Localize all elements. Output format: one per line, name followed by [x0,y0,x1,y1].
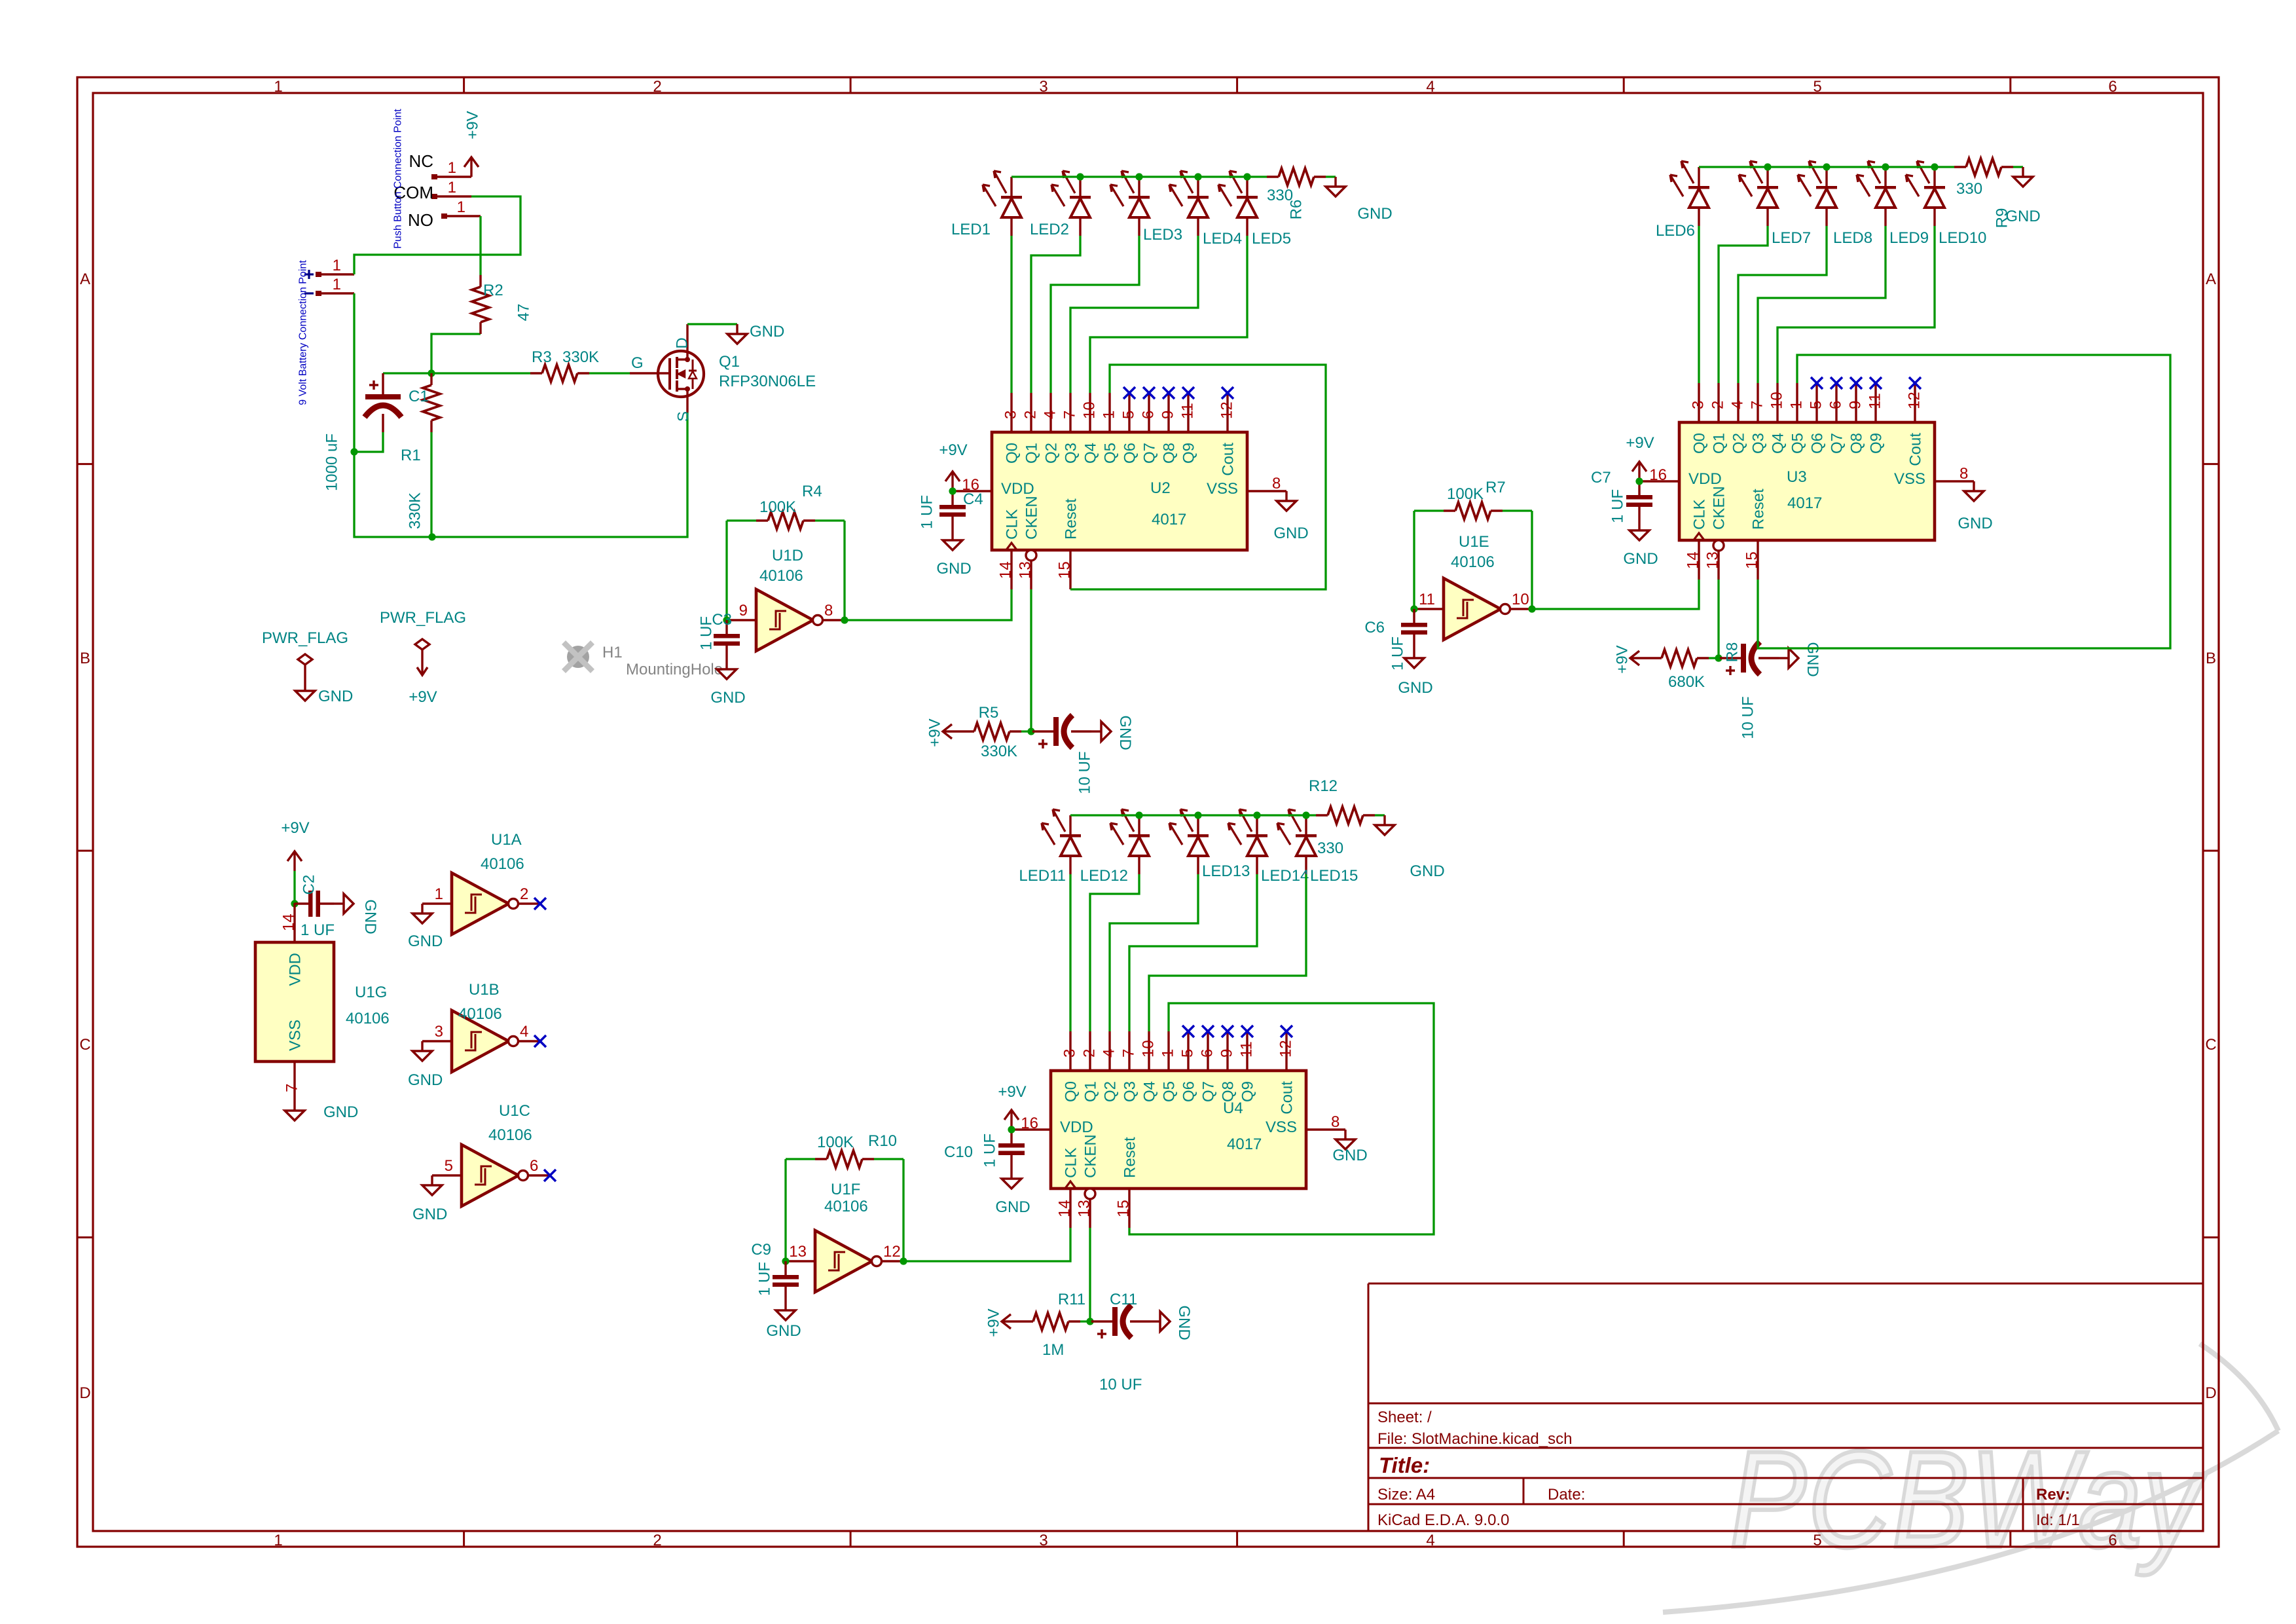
svg-text:GND: GND [412,1206,447,1223]
svg-text:C9: C9 [751,1241,771,1259]
svg-text:Q7: Q7 [1141,443,1159,464]
svg-text:Q4: Q4 [1141,1081,1159,1102]
svg-text:VSS: VSS [1266,1118,1297,1136]
svg-text:5: 5 [1179,1049,1197,1058]
svg-text:680K: 680K [1668,673,1705,691]
svg-text:Q6: Q6 [1121,443,1139,464]
svg-text:7: 7 [1061,411,1079,419]
svg-text:VDD: VDD [287,953,304,986]
svg-text:1: 1 [333,257,341,274]
svg-text:File: SlotMachine.kicad_sch: File: SlotMachine.kicad_sch [1377,1430,1572,1448]
svg-text:Cout: Cout [1279,1081,1296,1115]
svg-text:C7: C7 [1591,469,1611,487]
svg-text:VSS: VSS [287,1020,304,1051]
svg-text:VSS: VSS [1894,470,1925,488]
svg-text:GND: GND [1357,205,1392,223]
svg-text:15: 15 [1056,561,1074,579]
svg-text:3: 3 [1061,1049,1079,1058]
svg-text:CLK: CLK [1691,499,1709,530]
svg-text:1: 1 [1788,401,1806,409]
svg-text:4: 4 [1426,78,1434,96]
svg-text:4: 4 [1042,411,1059,419]
svg-text:C1: C1 [409,388,429,405]
svg-text:U1A: U1A [491,831,522,849]
svg-text:100K: 100K [759,498,796,516]
svg-text:D: D [674,337,691,348]
svg-text:12: 12 [883,1243,901,1261]
svg-text:PWR_FLAG: PWR_FLAG [262,629,348,647]
svg-text:U1E: U1E [1459,533,1489,551]
svg-text:C: C [2205,1036,2216,1054]
svg-text:1: 1 [457,198,465,216]
svg-text:1 UF: 1 UF [1609,489,1627,523]
svg-text:4: 4 [1426,1532,1434,1549]
svg-text:6: 6 [1140,411,1157,419]
svg-text:C10: C10 [944,1143,973,1161]
svg-text:7: 7 [1749,401,1766,409]
svg-text:Rev:: Rev: [2036,1486,2070,1504]
svg-text:PCBWay: PCBWay [1730,1423,2207,1576]
svg-text:Reset: Reset [1121,1137,1139,1178]
svg-text:LED3: LED3 [1143,226,1182,244]
svg-text:GND: GND [1804,642,1821,676]
svg-text:Q1: Q1 [1023,443,1041,464]
svg-text:A: A [2206,270,2216,288]
svg-text:9: 9 [1218,1049,1236,1058]
svg-text:40106: 40106 [481,855,524,873]
svg-text:LED5: LED5 [1252,230,1291,248]
svg-text:Push Button Connection Point: Push Button Connection Point [393,109,404,249]
svg-text:47: 47 [515,304,533,322]
svg-text:13: 13 [789,1243,807,1261]
svg-text:7: 7 [1120,1049,1138,1058]
svg-text:1: 1 [1101,411,1118,419]
svg-text:Q8: Q8 [1161,443,1178,464]
svg-text:Q9: Q9 [1180,443,1198,464]
svg-text:4017: 4017 [1152,511,1186,528]
svg-text:1 UF: 1 UF [919,495,936,529]
svg-text:VDD: VDD [1060,1118,1093,1136]
svg-text:11: 11 [1179,403,1197,419]
svg-text:Q0: Q0 [1691,433,1709,454]
svg-text:5: 5 [445,1157,453,1175]
svg-text:3: 3 [1039,78,1048,96]
svg-text:1 UF: 1 UF [301,921,335,939]
svg-text:40106: 40106 [488,1126,532,1144]
svg-text:10: 10 [1140,1040,1157,1058]
svg-text:14: 14 [1056,1200,1074,1217]
svg-text:6: 6 [1827,401,1845,409]
svg-text:GND: GND [318,688,353,705]
svg-text:8: 8 [824,602,833,619]
svg-text:4017: 4017 [1787,494,1822,512]
svg-text:330: 330 [1317,840,1343,857]
svg-text:MountingHole: MountingHole [626,661,723,678]
svg-text:LED15: LED15 [1310,867,1358,885]
svg-text:R10: R10 [868,1132,897,1150]
svg-text:16: 16 [1021,1115,1038,1132]
svg-text:CKEN: CKEN [1082,1134,1100,1178]
svg-text:RFP30N06LE: RFP30N06LE [719,373,816,390]
svg-text:10 UF: 10 UF [1740,696,1757,739]
svg-text:330K: 330K [562,348,599,366]
svg-text:VDD: VDD [1001,480,1034,498]
svg-text:16: 16 [1649,466,1667,484]
svg-text:Cout: Cout [1907,433,1925,466]
svg-text:11: 11 [1419,591,1435,608]
svg-text:100K: 100K [1447,485,1484,503]
svg-text:U1F: U1F [831,1181,860,1198]
svg-text:LED6: LED6 [1656,222,1695,240]
svg-text:Q6: Q6 [1180,1081,1198,1102]
svg-text:Size: A4: Size: A4 [1377,1486,1435,1504]
svg-text:R11: R11 [1058,1291,1085,1308]
svg-text:CLK: CLK [1004,509,1021,540]
svg-text:6: 6 [530,1157,538,1175]
svg-text:2: 2 [1081,1049,1099,1058]
svg-text:5: 5 [1813,1532,1821,1549]
svg-text:+9V: +9V [939,441,967,459]
svg-text:R2: R2 [483,282,503,299]
svg-text:Q8: Q8 [1848,433,1866,454]
svg-text:LED7: LED7 [1772,229,1811,247]
svg-text:5: 5 [1813,78,1821,96]
svg-text:R7: R7 [1485,479,1506,496]
svg-text:A: A [80,270,90,288]
svg-text:15: 15 [1115,1200,1133,1217]
svg-text:Q0: Q0 [1063,1081,1080,1102]
svg-text:+9V: +9V [1614,645,1631,673]
svg-text:Cout: Cout [1220,443,1237,476]
svg-text:1M: 1M [1042,1341,1064,1359]
svg-text:5: 5 [1120,411,1138,419]
svg-text:LED10: LED10 [1939,229,1986,247]
svg-text:+9V: +9V [1626,434,1654,452]
svg-text:Q3: Q3 [1063,443,1080,464]
svg-text:+9V: +9V [998,1083,1026,1101]
svg-text:40106: 40106 [759,567,803,585]
svg-text:LED11: LED11 [1019,867,1066,885]
svg-text:VDD: VDD [1688,470,1722,488]
svg-text:LED9: LED9 [1889,229,1929,247]
svg-text:1: 1 [274,78,282,96]
svg-text:Q4: Q4 [1082,443,1100,464]
svg-text:4: 4 [1729,401,1747,409]
svg-text:U4: U4 [1223,1099,1243,1117]
svg-text:Q2: Q2 [1043,443,1061,464]
svg-text:LED4: LED4 [1203,230,1242,248]
svg-text:Q1: Q1 [1082,1081,1100,1102]
svg-text:D: D [79,1384,90,1402]
svg-text:1: 1 [274,1532,282,1549]
svg-text:GND: GND [408,932,443,950]
svg-text:8: 8 [1959,465,1968,483]
svg-text:C4: C4 [963,490,983,508]
svg-text:+9V: +9V [281,819,309,837]
svg-text:R1: R1 [401,447,421,464]
svg-text:1 UF: 1 UF [981,1134,999,1168]
svg-text:9 Volt Battery Connection Poin: 9 Volt Battery Connection Point [298,260,309,405]
svg-text:3: 3 [1690,401,1707,409]
svg-text:1: 1 [448,159,456,177]
svg-text:6: 6 [2108,1532,2117,1549]
svg-text:GND: GND [750,323,784,341]
svg-text:LED1: LED1 [951,221,991,238]
svg-text:GND: GND [766,1322,801,1340]
svg-text:Q1: Q1 [719,353,740,371]
svg-text:12: 12 [1277,1040,1295,1058]
svg-text:10: 10 [1768,392,1786,409]
svg-text:11: 11 [1238,1041,1256,1058]
svg-text:15: 15 [1743,551,1761,569]
svg-text:B: B [80,650,90,667]
svg-text:2: 2 [1022,411,1040,419]
svg-text:Q1: Q1 [1711,433,1728,454]
svg-text:2: 2 [653,1532,661,1549]
svg-text:Q5: Q5 [1102,443,1120,464]
svg-text:Q2: Q2 [1102,1081,1120,1102]
svg-text:330K: 330K [981,743,1017,760]
svg-text:1: 1 [448,179,456,196]
svg-text:R9: R9 [1994,208,2011,229]
svg-text:Q6: Q6 [1809,433,1827,454]
svg-text:14: 14 [997,561,1015,579]
svg-text:GND: GND [1958,515,1992,532]
svg-text:12: 12 [1218,401,1236,419]
svg-text:8: 8 [1272,475,1281,492]
svg-text:C6: C6 [1364,619,1385,637]
svg-text:3: 3 [435,1023,443,1041]
svg-text:CLK: CLK [1063,1147,1080,1178]
svg-text:G: G [631,354,644,372]
svg-text:LED12: LED12 [1080,867,1128,885]
svg-text:LED2: LED2 [1030,221,1069,238]
svg-text:1: 1 [435,885,443,903]
svg-text:R12: R12 [1309,777,1338,795]
svg-text:2: 2 [1709,401,1727,409]
svg-text:C11: C11 [1110,1291,1137,1308]
svg-text:1: 1 [333,276,341,293]
svg-text:9: 9 [1847,401,1865,409]
svg-text:3: 3 [1002,411,1020,419]
svg-text:Q3: Q3 [1750,433,1768,454]
svg-text:U1D: U1D [772,547,803,564]
svg-text:R3: R3 [532,348,552,366]
svg-text:Q4: Q4 [1770,433,1787,454]
svg-text:GND: GND [710,689,745,707]
svg-text:100K: 100K [817,1134,854,1151]
svg-text:U2: U2 [1150,479,1171,497]
svg-text:5: 5 [1808,401,1825,409]
svg-text:NC: NC [409,151,433,171]
svg-text:4: 4 [1101,1049,1118,1058]
svg-text:330: 330 [1956,180,1982,198]
svg-text:LED8: LED8 [1833,229,1872,247]
svg-text:R6: R6 [1288,200,1305,220]
svg-text:2: 2 [520,885,528,903]
svg-text:LED13: LED13 [1202,862,1250,880]
svg-text:NO: NO [408,210,433,230]
svg-text:7: 7 [283,1084,301,1092]
svg-text:GND: GND [1273,525,1308,542]
svg-text:GND: GND [1332,1147,1367,1164]
svg-text:VSS: VSS [1207,480,1238,498]
svg-text:GND: GND [1410,862,1444,880]
svg-text:U3: U3 [1787,468,1807,486]
svg-text:Q7: Q7 [1829,433,1846,454]
svg-text:10 UF: 10 UF [1099,1376,1142,1393]
svg-text:40106: 40106 [824,1198,868,1215]
svg-text:12: 12 [1906,392,1923,409]
svg-text:14: 14 [280,913,298,931]
svg-text:40106: 40106 [458,1005,502,1023]
svg-text:U1G: U1G [355,984,387,1001]
svg-text:3: 3 [1039,1532,1048,1549]
svg-text:2: 2 [653,78,661,96]
svg-text:H1: H1 [602,644,623,661]
svg-text:R5: R5 [979,704,999,722]
svg-text:C: C [79,1036,90,1054]
svg-text:CKEN: CKEN [1711,486,1728,530]
svg-text:GND: GND [361,899,379,934]
svg-text:GND: GND [1175,1305,1193,1340]
svg-text:Id: 1/1: Id: 1/1 [2036,1511,2080,1529]
svg-text:+9V: +9V [409,688,437,706]
svg-text:R8: R8 [1724,642,1741,663]
svg-text:+9V: +9V [985,1308,1003,1337]
svg-text:+9V: +9V [464,111,482,139]
svg-text:KiCad E.D.A. 9.0.0: KiCad E.D.A. 9.0.0 [1377,1511,1509,1529]
svg-text:40106: 40106 [346,1010,390,1027]
svg-text:U1C: U1C [499,1102,530,1120]
svg-text:Q0: Q0 [1004,443,1021,464]
svg-text:Q3: Q3 [1121,1081,1139,1102]
svg-text:14: 14 [1685,551,1702,569]
svg-text:11: 11 [1867,393,1884,409]
svg-text:330K: 330K [407,492,424,529]
svg-text:9: 9 [739,602,748,619]
svg-text:C2: C2 [301,875,318,895]
svg-text:1 UF: 1 UF [1389,637,1407,671]
svg-text:Q9: Q9 [1868,433,1886,454]
svg-text:GND: GND [1623,550,1658,568]
svg-text:D: D [2205,1384,2216,1402]
svg-text:U1B: U1B [469,981,500,999]
svg-text:GND: GND [995,1198,1030,1216]
svg-text:6: 6 [1199,1049,1216,1058]
svg-text:6: 6 [2108,78,2117,96]
svg-text:13: 13 [1017,561,1034,579]
svg-text:4017: 4017 [1227,1135,1262,1153]
svg-text:13: 13 [1704,551,1722,569]
svg-text:GND: GND [936,560,971,578]
svg-text:1: 1 [1159,1049,1177,1058]
svg-text:S: S [675,411,693,422]
svg-text:1 UF: 1 UF [698,616,716,650]
svg-text:CKEN: CKEN [1023,496,1041,540]
svg-text:13: 13 [1076,1200,1093,1217]
svg-text:10: 10 [1512,591,1529,608]
svg-text:Q7: Q7 [1200,1081,1218,1102]
svg-text:PWR_FLAG: PWR_FLAG [380,609,466,627]
svg-text:+9V: +9V [926,718,944,747]
svg-text:4: 4 [520,1023,528,1041]
svg-text:10: 10 [1081,401,1099,419]
svg-text:LED14: LED14 [1261,867,1309,885]
svg-text:1000 uF: 1000 uF [323,434,341,491]
svg-text:Title:: Title: [1379,1453,1430,1477]
svg-text:40106: 40106 [1451,553,1495,571]
svg-text:Sheet: /: Sheet: / [1377,1409,1432,1426]
svg-text:1 UF: 1 UF [756,1262,774,1296]
svg-text:GND: GND [1116,715,1134,750]
svg-text:Q5: Q5 [1161,1081,1178,1102]
svg-text:8: 8 [1331,1113,1339,1131]
svg-text:R4: R4 [802,483,822,500]
svg-text:GND: GND [323,1103,358,1121]
svg-text:Q5: Q5 [1789,433,1807,454]
svg-text:9: 9 [1159,411,1177,419]
svg-text:Reset: Reset [1750,489,1768,530]
svg-text:Reset: Reset [1063,498,1080,540]
svg-text:GND: GND [408,1071,443,1089]
svg-text:B: B [2206,650,2216,667]
svg-text:Q2: Q2 [1730,433,1748,454]
svg-text:Date:: Date: [1548,1486,1585,1504]
svg-text:GND: GND [1398,679,1432,697]
svg-text:10 UF: 10 UF [1076,751,1094,794]
